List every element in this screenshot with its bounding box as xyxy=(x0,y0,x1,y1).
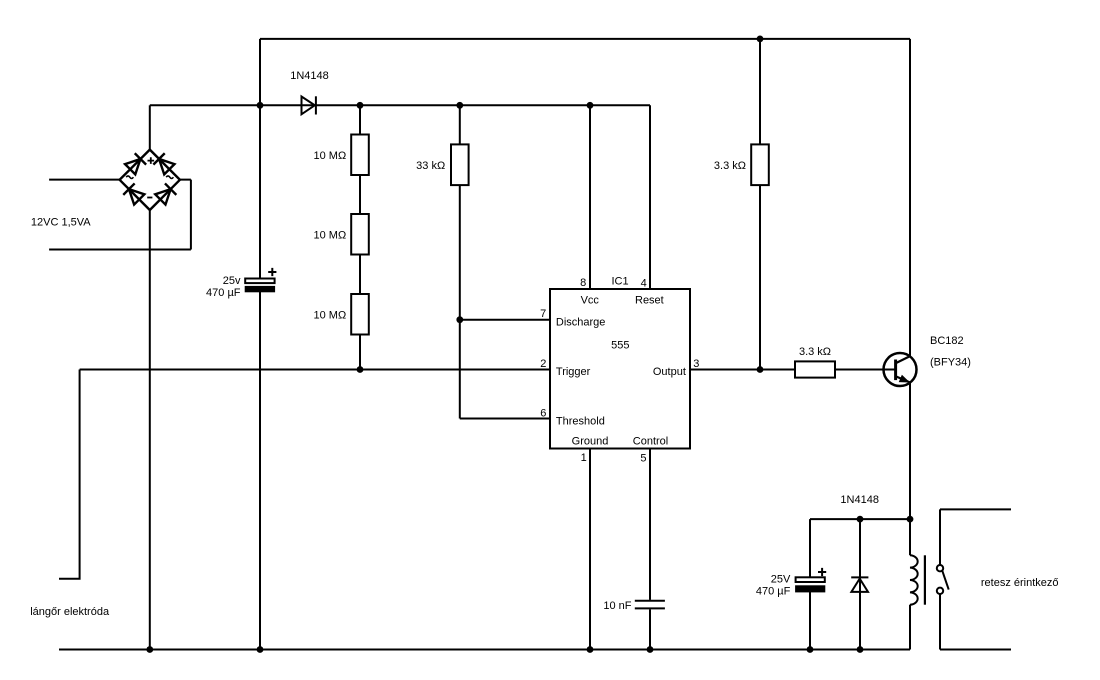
svg-text:5: 5 xyxy=(640,453,646,465)
svg-text:10 MΩ: 10 MΩ xyxy=(314,150,347,162)
transistor Q1 base bar xyxy=(894,360,897,381)
svg-text:4: 4 xyxy=(641,278,647,290)
wire threshold pin6 xyxy=(460,418,550,420)
svg-text:IC1: IC1 xyxy=(612,276,629,288)
svg-text:470 µF: 470 µF xyxy=(756,585,791,597)
svg-text:Trigger: Trigger xyxy=(556,366,591,378)
resistor R5 3.3k pullup xyxy=(751,144,769,185)
wire discharge pin7 xyxy=(460,319,550,321)
node ground rail / D2 xyxy=(857,646,864,653)
svg-text:3: 3 xyxy=(693,358,699,370)
wire emitter to relay xyxy=(909,383,911,555)
svg-text:Ground: Ground xyxy=(572,435,609,447)
wire C2 vertical xyxy=(809,519,811,649)
svg-text:25V: 25V xyxy=(771,574,791,586)
relay contact top circle xyxy=(937,565,943,571)
wire trigger line pin2 xyxy=(80,369,550,371)
node top rail / R5 xyxy=(757,36,764,43)
transistor Q1 emitter diagonal xyxy=(896,376,911,383)
capacitor C1 470uF bottom plate xyxy=(245,286,274,291)
bridge AC tilde right xyxy=(166,176,173,179)
svg-text:Reset: Reset xyxy=(635,294,664,306)
wire ground pin1 xyxy=(589,449,591,650)
wire AC input lower xyxy=(49,180,191,250)
svg-text:555: 555 xyxy=(611,340,629,352)
bridge AC tilde left xyxy=(126,176,133,179)
capacitor C3 10nF plates xyxy=(635,601,665,609)
bridge diode bottom-right xyxy=(155,183,176,204)
node y105 / 10M chain xyxy=(357,102,364,109)
wire output pin3 to R6 xyxy=(690,369,795,371)
node ground rail / pin1 xyxy=(587,646,594,653)
bridge diode bottom-left xyxy=(123,183,144,204)
svg-text:BC182: BC182 xyxy=(930,335,964,347)
diode D3 1N4148 flyback xyxy=(851,577,868,592)
resistor R3 10M xyxy=(351,294,369,335)
bridge minus mark xyxy=(147,197,152,199)
svg-text:10 nF: 10 nF xyxy=(603,600,631,612)
wire top supply rail xyxy=(260,38,910,40)
svg-text:1N4148: 1N4148 xyxy=(290,70,329,82)
capacitor C2 470uF bottom plate xyxy=(796,586,825,592)
svg-text:lángőr elektróda: lángőr elektróda xyxy=(30,606,110,618)
svg-text:12VC 1,5VA: 12VC 1,5VA xyxy=(31,216,91,228)
node ground rail / C1 xyxy=(257,646,264,653)
capacitor C1 470uF top plate xyxy=(245,279,274,284)
node trigger / 10M chain xyxy=(357,366,364,373)
C2 plus mark xyxy=(818,568,826,576)
svg-text:Discharge: Discharge xyxy=(556,316,606,328)
wire bridge top stub xyxy=(149,105,151,149)
wire relay contact upper xyxy=(940,509,1011,565)
svg-text:3.3 kΩ: 3.3 kΩ xyxy=(799,346,831,358)
capacitor C2 470uF top plate xyxy=(796,577,825,582)
transistor Q1 circle xyxy=(884,353,917,386)
wire bridge negative vertical xyxy=(149,210,151,650)
diode D1 1N4148 top xyxy=(302,96,316,114)
wire left supply vertical (through C1) xyxy=(259,39,261,650)
node flyback / relay xyxy=(907,516,914,523)
svg-text:(BFY34): (BFY34) xyxy=(930,357,971,369)
svg-text:1N4148: 1N4148 xyxy=(840,494,879,506)
wire 33k to threshold net xyxy=(459,105,461,418)
svg-text:10 MΩ: 10 MΩ xyxy=(314,309,347,321)
node y105 / C1 line xyxy=(257,102,264,109)
node output / R5 xyxy=(757,366,764,373)
wire 3.3k pullup vertical xyxy=(759,39,761,370)
svg-text:Control: Control xyxy=(633,435,668,447)
wire D2 vertical xyxy=(859,519,861,649)
svg-text:retesz érintkező: retesz érintkező xyxy=(981,577,1059,589)
bridge diode top-left xyxy=(125,153,146,174)
node ground rail / bridge xyxy=(146,646,153,653)
wire 10M resistor chain xyxy=(359,105,361,369)
svg-text:Output: Output xyxy=(653,366,686,378)
relay contact bottom circle xyxy=(937,588,943,594)
resistor R6 3.3k base xyxy=(795,361,835,377)
wire Vcc pin8 xyxy=(589,105,591,289)
wire AC input upper xyxy=(49,179,120,181)
bridge diode top-right xyxy=(153,153,174,174)
wire collector vertical xyxy=(909,39,911,356)
svg-text:Vcc: Vcc xyxy=(581,294,600,306)
svg-text:2: 2 xyxy=(540,358,546,370)
wire control pin5 (through C3) xyxy=(649,449,651,650)
svg-text:3.3 kΩ: 3.3 kΩ xyxy=(714,160,746,172)
svg-text:470 µF: 470 µF xyxy=(206,287,241,299)
node ground rail / C2 xyxy=(807,646,814,653)
wire +V distribution line y=105 xyxy=(150,104,650,106)
svg-text:33 kΩ: 33 kΩ xyxy=(416,160,445,172)
svg-text:8: 8 xyxy=(580,277,586,289)
relay K1 coil xyxy=(910,555,918,604)
wire flame electrode stub xyxy=(59,370,80,579)
wire flyback top line xyxy=(810,518,910,520)
resistor R2 10M xyxy=(351,214,369,255)
IC1 555 box xyxy=(550,289,690,449)
wire relay coil bottom stub xyxy=(909,605,911,650)
svg-text:10 MΩ: 10 MΩ xyxy=(314,229,347,241)
node y105 / 33k xyxy=(456,102,463,109)
wire R6 to base xyxy=(835,369,896,371)
bridge plus mark xyxy=(148,157,155,164)
wire bottom ground rail xyxy=(59,649,910,651)
svg-text:7: 7 xyxy=(540,308,546,320)
wire relay contact lower xyxy=(940,594,1011,649)
svg-text:1: 1 xyxy=(581,452,587,464)
resistor R4 33k xyxy=(451,144,469,185)
transistor Q1 collector diagonal xyxy=(896,356,911,363)
resistor R1 10M xyxy=(351,135,369,176)
C1 plus mark xyxy=(268,268,276,276)
relay K1 core bar xyxy=(924,555,926,604)
transistor Q1 emitter arrow xyxy=(899,375,910,383)
bridge rectifier B1 xyxy=(120,150,180,210)
svg-text:Threshold: Threshold xyxy=(556,415,605,427)
svg-text:25v: 25v xyxy=(223,275,241,287)
node ground rail / pin5 xyxy=(647,646,654,653)
node discharge junction xyxy=(456,316,463,323)
node y105 / Vcc xyxy=(587,102,594,109)
wire reset pin4 xyxy=(649,105,651,289)
node flyback / D2 xyxy=(857,516,864,523)
relay contact arm xyxy=(942,571,948,590)
svg-text:6: 6 xyxy=(540,407,546,419)
